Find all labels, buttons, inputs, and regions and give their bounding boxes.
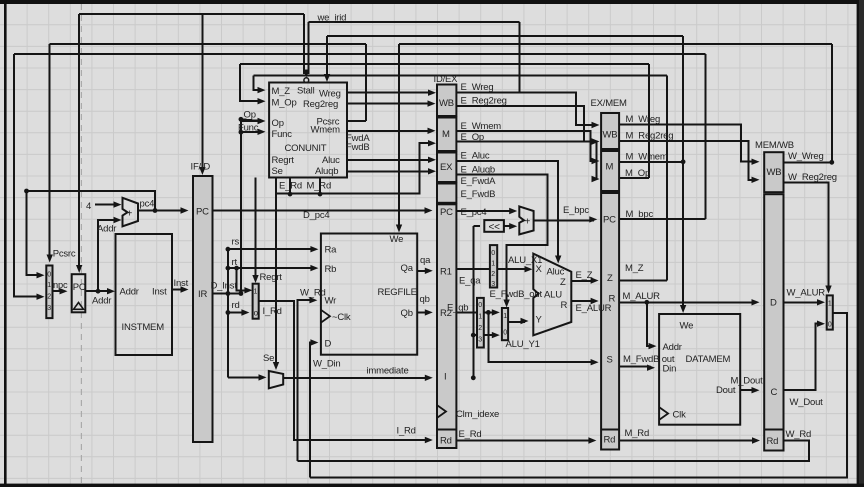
svg-text:E_FwdB: E_FwdB bbox=[461, 189, 496, 200]
svg-text:1: 1 bbox=[491, 261, 495, 268]
svg-text:PC: PC bbox=[73, 282, 86, 293]
svg-text:IR: IR bbox=[198, 289, 207, 300]
svg-text:Aluc: Aluc bbox=[322, 155, 340, 166]
svg-text:WB: WB bbox=[767, 167, 782, 178]
svg-text:Inst: Inst bbox=[174, 278, 189, 289]
svg-text:Addr: Addr bbox=[663, 342, 682, 353]
svg-text:M_Reg2reg: M_Reg2reg bbox=[626, 131, 674, 142]
svg-text:Z: Z bbox=[560, 277, 566, 288]
svg-text:W_Reg2reg: W_Reg2reg bbox=[788, 172, 837, 183]
svg-text:ID/EX: ID/EX bbox=[434, 74, 459, 85]
svg-text:Wmem: Wmem bbox=[311, 125, 341, 136]
svg-text:2: 2 bbox=[478, 325, 482, 332]
svg-text:M_Rd: M_Rd bbox=[625, 428, 650, 439]
svg-text:WB: WB bbox=[603, 130, 618, 141]
svg-text:1: 1 bbox=[828, 301, 832, 308]
svg-text:PC: PC bbox=[440, 207, 453, 218]
svg-text:Y: Y bbox=[536, 315, 543, 326]
svg-text:4: 4 bbox=[86, 201, 91, 212]
svg-text:Op: Op bbox=[244, 110, 256, 121]
svg-text:0: 0 bbox=[478, 302, 482, 309]
svg-text:E_pc4: E_pc4 bbox=[461, 207, 487, 218]
svg-text:We: We bbox=[680, 321, 694, 332]
svg-text:M_Wreg: M_Wreg bbox=[626, 114, 661, 125]
svg-text:W_Din: W_Din bbox=[313, 359, 341, 370]
svg-text:ALU_Y1: ALU_Y1 bbox=[506, 339, 540, 350]
svg-text:D: D bbox=[770, 298, 777, 309]
svg-text:qb: qb bbox=[420, 294, 430, 305]
svg-text:Rd: Rd bbox=[604, 435, 616, 446]
svg-text:1: 1 bbox=[503, 313, 507, 320]
svg-text:3: 3 bbox=[47, 305, 51, 312]
svg-text:INSTMEM: INSTMEM bbox=[122, 322, 165, 333]
svg-text:EX: EX bbox=[440, 162, 453, 173]
svg-text:+: + bbox=[525, 217, 531, 228]
svg-text:~Clk: ~Clk bbox=[332, 312, 351, 323]
svg-text:Se: Se bbox=[272, 166, 283, 177]
svg-text:Z: Z bbox=[607, 273, 613, 284]
svg-text:W_Rd: W_Rd bbox=[786, 429, 812, 440]
svg-text:pc4: pc4 bbox=[140, 199, 155, 210]
svg-text:Qb: Qb bbox=[401, 308, 413, 319]
svg-text:E_Wreg: E_Wreg bbox=[461, 82, 494, 93]
svg-text:Aluc: Aluc bbox=[547, 267, 565, 278]
svg-text:Se: Se bbox=[263, 353, 274, 364]
svg-text:E_Aluc: E_Aluc bbox=[461, 151, 490, 162]
svg-text:MEM/WB: MEM/WB bbox=[755, 140, 794, 151]
svg-text:we_irid: we_irid bbox=[317, 13, 347, 24]
svg-text:M: M bbox=[442, 129, 450, 140]
svg-text:D_pc4: D_pc4 bbox=[303, 210, 329, 221]
svg-text:Ra: Ra bbox=[325, 245, 338, 256]
svg-text:Rd: Rd bbox=[767, 436, 779, 447]
svg-text:M_Rd: M_Rd bbox=[307, 181, 332, 192]
svg-text:1: 1 bbox=[478, 314, 482, 321]
svg-text:1: 1 bbox=[47, 282, 51, 289]
svg-text:WB: WB bbox=[439, 98, 454, 109]
svg-text:2: 2 bbox=[47, 294, 51, 301]
svg-text:E_bpc: E_bpc bbox=[563, 205, 589, 216]
svg-text:DATAMEM: DATAMEM bbox=[686, 354, 731, 365]
svg-text:Reg2reg: Reg2reg bbox=[303, 99, 338, 110]
svg-text:2: 2 bbox=[491, 271, 495, 278]
svg-text:Func: Func bbox=[272, 129, 293, 140]
svg-text:Clm_idexe: Clm_idexe bbox=[456, 409, 499, 420]
svg-text:o: o bbox=[254, 309, 259, 318]
svg-text:Dout: Dout bbox=[716, 385, 736, 396]
svg-text:Clk: Clk bbox=[673, 410, 687, 421]
svg-text:PC: PC bbox=[603, 215, 616, 226]
svg-text:rd: rd bbox=[232, 300, 240, 311]
svg-text:EX/MEM: EX/MEM bbox=[591, 98, 628, 109]
svg-text:Rd: Rd bbox=[440, 436, 452, 447]
svg-text:S: S bbox=[607, 355, 613, 366]
svg-text:0: 0 bbox=[503, 330, 507, 337]
svg-text:M_ALUR: M_ALUR bbox=[623, 291, 661, 302]
svg-text:D: D bbox=[325, 339, 332, 350]
svg-text:I_Rd: I_Rd bbox=[263, 306, 282, 317]
svg-text:M: M bbox=[606, 162, 614, 173]
svg-text:0: 0 bbox=[491, 250, 495, 257]
svg-text:E_Z: E_Z bbox=[576, 270, 593, 281]
svg-text:Wr: Wr bbox=[325, 296, 337, 307]
svg-text:Addr: Addr bbox=[97, 224, 116, 235]
svg-text:Addr: Addr bbox=[92, 296, 111, 307]
svg-text:<<: << bbox=[489, 222, 501, 233]
svg-text:M_Op: M_Op bbox=[272, 98, 297, 109]
svg-text:M_Z: M_Z bbox=[625, 263, 644, 274]
svg-text:W_Wreg: W_Wreg bbox=[788, 151, 824, 162]
svg-text:3: 3 bbox=[478, 337, 482, 344]
svg-text:qa: qa bbox=[420, 255, 431, 266]
svg-text:Regrt: Regrt bbox=[272, 155, 295, 166]
svg-text:ALU: ALU bbox=[544, 290, 562, 301]
svg-text:1: 1 bbox=[254, 289, 258, 296]
svg-text:C: C bbox=[771, 387, 778, 398]
svg-text:3: 3 bbox=[491, 281, 495, 288]
svg-text:REGFILE: REGFILE bbox=[378, 287, 417, 298]
svg-text:E_FwdA: E_FwdA bbox=[461, 176, 497, 187]
svg-text:Stall: Stall bbox=[297, 86, 315, 97]
svg-text:Pcsrc: Pcsrc bbox=[53, 249, 76, 260]
svg-text:PC: PC bbox=[196, 207, 209, 218]
svg-text:We: We bbox=[390, 234, 404, 245]
svg-text:Addr: Addr bbox=[120, 287, 139, 298]
svg-text:D_Inst: D_Inst bbox=[211, 281, 238, 292]
svg-text:M_Dout: M_Dout bbox=[731, 376, 764, 387]
svg-text:M_Z: M_Z bbox=[272, 86, 291, 97]
svg-text:0: 0 bbox=[47, 272, 51, 279]
svg-text:E_Reg2reg: E_Reg2reg bbox=[461, 96, 507, 107]
svg-text:Din: Din bbox=[663, 364, 677, 375]
svg-text:R: R bbox=[561, 300, 568, 311]
svg-text:E_Rd: E_Rd bbox=[459, 429, 482, 440]
svg-text:CONUNIT: CONUNIT bbox=[285, 143, 327, 154]
svg-text:Func: Func bbox=[238, 123, 259, 134]
svg-text:rt: rt bbox=[232, 257, 238, 268]
svg-text:rs: rs bbox=[232, 237, 240, 248]
svg-text:I: I bbox=[444, 372, 446, 383]
svg-text:E_qb: E_qb bbox=[447, 303, 468, 314]
svg-text:Qa: Qa bbox=[401, 263, 414, 274]
svg-text:E_ALUR: E_ALUR bbox=[576, 303, 612, 314]
svg-text:W_ALUR: W_ALUR bbox=[787, 288, 826, 299]
svg-text:Wreg: Wreg bbox=[319, 89, 341, 100]
svg-text:X: X bbox=[536, 264, 543, 275]
svg-text:+: + bbox=[127, 209, 133, 220]
svg-text:immediate: immediate bbox=[367, 366, 409, 377]
svg-text:Inst: Inst bbox=[152, 287, 167, 298]
svg-text:I_Rd: I_Rd bbox=[397, 426, 416, 437]
svg-text:IF/ID: IF/ID bbox=[191, 162, 211, 173]
svg-text:W_Dout: W_Dout bbox=[790, 397, 824, 408]
svg-text:Rb: Rb bbox=[325, 264, 337, 275]
svg-text:Regrt: Regrt bbox=[260, 272, 283, 283]
svg-text:Aluqb: Aluqb bbox=[315, 166, 338, 177]
svg-text:W_Rd: W_Rd bbox=[300, 288, 326, 299]
svg-text:0: 0 bbox=[828, 322, 832, 329]
svg-text:R1: R1 bbox=[440, 267, 452, 278]
svg-text:FwdB: FwdB bbox=[346, 142, 369, 153]
svg-text:E_qa: E_qa bbox=[459, 276, 481, 287]
svg-text:Op: Op bbox=[272, 118, 284, 129]
